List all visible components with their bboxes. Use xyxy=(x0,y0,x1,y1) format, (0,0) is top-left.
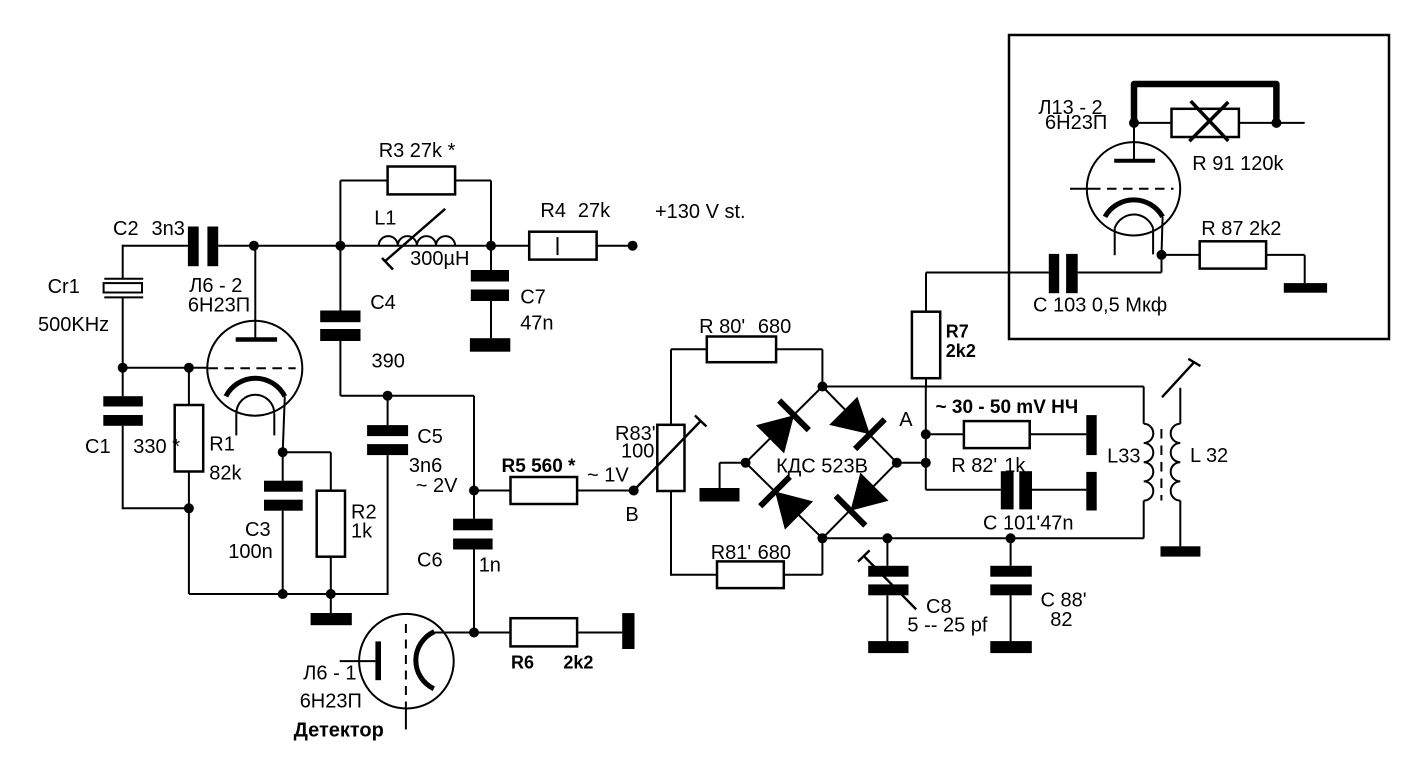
svg-text:~ 2V: ~ 2V xyxy=(416,475,458,497)
svg-text:R 80': R 80' xyxy=(699,316,745,338)
svg-text:A: A xyxy=(899,409,913,431)
svg-text:R 82': R 82' xyxy=(951,455,997,477)
wire A rail xyxy=(925,386,927,490)
svg-text:L33: L33 xyxy=(1107,446,1140,468)
resistor R82' xyxy=(926,421,1087,477)
resistor R80' xyxy=(671,316,822,387)
svg-text:L 32: L 32 xyxy=(1190,445,1228,467)
svg-text:+130 V st.: +130 V st. xyxy=(655,201,746,223)
node 2V junction xyxy=(416,475,479,497)
ground bar under R2 xyxy=(311,613,352,625)
capacitor C3 xyxy=(228,452,302,594)
svg-text:C3: C3 xyxy=(245,519,271,541)
diode bridge KDS 523V outline xyxy=(746,387,897,539)
svg-text:Детектор: Детектор xyxy=(294,720,384,742)
inductor L32 xyxy=(1171,388,1228,547)
resistor R87 xyxy=(1162,218,1305,283)
svg-text:6Н23П: 6Н23П xyxy=(300,691,362,713)
svg-text:C4: C4 xyxy=(370,292,396,314)
svg-text:390: 390 xyxy=(372,351,405,373)
resistor R1 xyxy=(133,368,242,594)
inset box frame xyxy=(1009,35,1389,339)
terminal bar right of R6 xyxy=(622,613,634,649)
wire grid row xyxy=(123,367,208,369)
node bridge top xyxy=(817,382,827,392)
svg-text:2k2: 2k2 xyxy=(946,341,976,361)
capacitor C5 xyxy=(367,396,443,594)
inductor L1 xyxy=(374,208,469,271)
wire C2 to Cr1 xyxy=(122,245,124,279)
svg-text:R7: R7 xyxy=(946,322,969,342)
svg-text:330 *: 330 * xyxy=(133,436,180,458)
inductor L33 xyxy=(1107,387,1153,539)
svg-text:R3 27k *: R3 27k * xyxy=(379,140,456,162)
svg-text:2k2: 2k2 xyxy=(563,652,593,672)
diode D2 top-right xyxy=(829,397,885,449)
node C8 junction xyxy=(882,533,892,543)
svg-text:~ 1V: ~ 1V xyxy=(587,464,629,486)
svg-text:500KHz: 500KHz xyxy=(38,314,109,336)
diode D1 top-left xyxy=(756,401,809,454)
svg-text:Л6 - 1: Л6 - 1 xyxy=(303,663,356,685)
triode U1 L6-2 xyxy=(188,246,302,453)
svg-text:82: 82 xyxy=(1050,609,1072,631)
svg-text:100: 100 xyxy=(621,441,654,463)
svg-text:C1: C1 xyxy=(85,436,111,458)
node detector junction xyxy=(469,628,479,638)
svg-text:B: B xyxy=(625,504,638,526)
node bridge bottom xyxy=(817,533,827,543)
trimmer arrow L32 xyxy=(1162,359,1200,397)
node C4 top junction xyxy=(335,241,345,251)
ground bar under L32 xyxy=(1161,546,1201,556)
svg-text:6Н23П: 6Н23П xyxy=(188,295,250,317)
ground bar under C8 xyxy=(868,641,908,653)
resistor R91 crossed xyxy=(1134,101,1305,175)
node +130V terminal xyxy=(628,201,746,251)
node R1 top junction xyxy=(184,363,194,373)
capacitor C103 xyxy=(1009,254,1167,317)
wire C4 bottom row xyxy=(340,395,474,397)
svg-text:C7: C7 xyxy=(520,286,546,308)
svg-text:1k: 1k xyxy=(351,521,373,543)
node cathode junction xyxy=(278,447,288,457)
svg-text:6Н23П: 6Н23П xyxy=(1045,112,1107,134)
triode U3 L13-2 xyxy=(1038,97,1180,255)
wire top rail B+ xyxy=(218,245,631,247)
capacitor C4 xyxy=(320,246,405,396)
node G junction xyxy=(118,363,128,373)
svg-text:R 91 120k: R 91 120k xyxy=(1192,153,1284,175)
terminal bar right of C101' xyxy=(1086,472,1096,511)
svg-text:300µH: 300µH xyxy=(410,248,469,270)
svg-text:R 87 2k2: R 87 2k2 xyxy=(1201,218,1281,240)
node cathode junction L13 xyxy=(1157,250,1167,260)
resistor R4 xyxy=(529,200,611,260)
svg-text:27k: 27k xyxy=(578,200,611,222)
diode D3 bottom-left xyxy=(760,477,813,530)
svg-text:5 -- 25 pf: 5 -- 25 pf xyxy=(907,615,987,637)
wire cathode to R2 xyxy=(283,452,331,491)
node bridge right xyxy=(892,458,902,468)
wire bridge right to rail xyxy=(897,462,926,464)
svg-text:R5 560 *: R5 560 * xyxy=(502,456,577,477)
transformer core xyxy=(1160,429,1162,501)
svg-text:R6: R6 xyxy=(511,652,534,672)
node B xyxy=(625,486,638,527)
thick feedback wire xyxy=(1134,84,1276,123)
resistor R6 xyxy=(474,618,622,672)
svg-text:КДС 523В: КДС 523В xyxy=(776,455,868,477)
svg-text:3n6: 3n6 xyxy=(409,455,442,477)
wire bridge bottom row xyxy=(822,537,1143,539)
wire to 2V node xyxy=(473,396,475,491)
resistor R7 xyxy=(912,273,976,387)
svg-text:Cr1: Cr1 xyxy=(48,276,80,298)
crystal Cr1 xyxy=(38,276,143,336)
capacitor C88' xyxy=(990,538,1086,641)
variable capacitor C8 xyxy=(858,538,988,641)
triode U2 L6-1 detector xyxy=(294,614,474,742)
svg-text:680: 680 xyxy=(758,542,791,564)
ground bar under C7 xyxy=(470,338,510,352)
svg-text:3n3: 3n3 xyxy=(152,218,185,240)
node R2 ground junction xyxy=(326,589,336,599)
svg-text:82k: 82k xyxy=(209,463,242,485)
svg-text:C 101'47n: C 101'47n xyxy=(983,513,1074,535)
node C3 ground junction xyxy=(278,589,288,599)
node anode junction xyxy=(249,241,259,251)
node rail-bridge junction xyxy=(921,458,931,468)
resistor R3 xyxy=(340,140,491,246)
node C1-R1 junction xyxy=(184,503,194,513)
svg-text:47n: 47n xyxy=(520,312,553,334)
node A junction xyxy=(899,409,931,439)
capacitor C1 xyxy=(85,368,189,510)
resistor R81' xyxy=(671,538,822,588)
ground left of bridge xyxy=(700,463,746,502)
svg-text:R4: R4 xyxy=(540,200,566,222)
capacitor C7 xyxy=(471,246,554,339)
svg-text:C2: C2 xyxy=(113,218,139,240)
svg-text:1n: 1n xyxy=(479,554,501,576)
svg-text:100n: 100n xyxy=(228,541,272,563)
ground bar under C88' xyxy=(990,641,1032,653)
capacitor C101' xyxy=(926,471,1087,534)
node C88 junction xyxy=(1006,533,1016,543)
svg-text:~ 30 - 50 mV НЧ: ~ 30 - 50 mV НЧ xyxy=(936,397,1079,418)
node C5 top junction xyxy=(383,391,393,401)
ground bar under R87 xyxy=(1284,283,1327,293)
capacitor C2 xyxy=(113,218,218,266)
svg-text:C5: C5 xyxy=(417,426,443,448)
svg-text:R81': R81' xyxy=(711,542,752,564)
svg-text:R1: R1 xyxy=(209,434,235,456)
terminal bar right of R82' xyxy=(1086,415,1096,455)
svg-text:C 103 0,5 Мкф: C 103 0,5 Мкф xyxy=(1033,295,1167,317)
svg-text:680: 680 xyxy=(758,316,791,338)
node R91 left junction xyxy=(1129,118,1139,128)
svg-text:L1: L1 xyxy=(374,208,396,230)
resistor R2 xyxy=(317,491,377,613)
wire ground rail left xyxy=(189,593,389,595)
wire bridge top row xyxy=(822,386,1143,388)
node C7 top junction xyxy=(486,241,496,251)
wire R7 to C103 xyxy=(926,272,1049,274)
potentiometer R83' xyxy=(615,349,707,575)
diode D4 bottom-right xyxy=(836,473,889,526)
wire Cr1 to node G xyxy=(122,297,124,367)
node bridge left xyxy=(741,458,751,468)
svg-text:C6: C6 xyxy=(417,550,443,572)
resistor R5 xyxy=(474,456,634,504)
capacitor C6 xyxy=(417,491,501,633)
